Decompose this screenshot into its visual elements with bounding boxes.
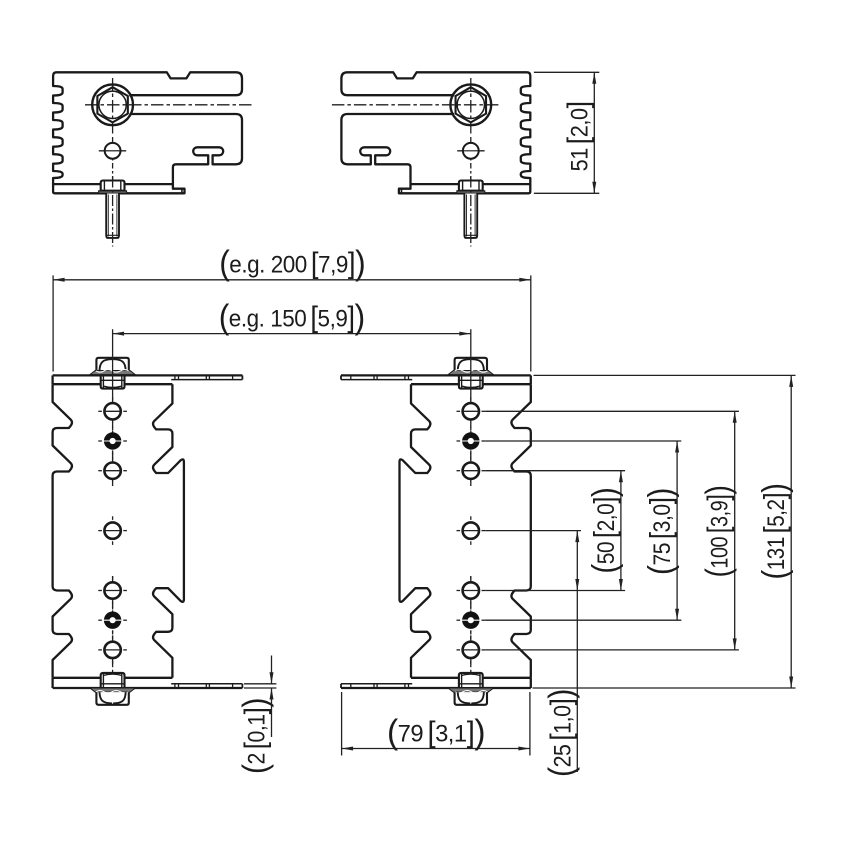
svg-text:(2 [0,1]): (2 [0,1]) xyxy=(235,698,273,774)
svg-text:(25 [1,0]): (25 [1,0]) xyxy=(541,689,579,777)
svg-text:(50 [2,0]): (50 [2,0]) xyxy=(585,488,624,574)
svg-text:51 [2,0]: 51 [2,0] xyxy=(561,101,595,171)
svg-text:(75 [3,0]): (75 [3,0]) xyxy=(641,488,680,575)
